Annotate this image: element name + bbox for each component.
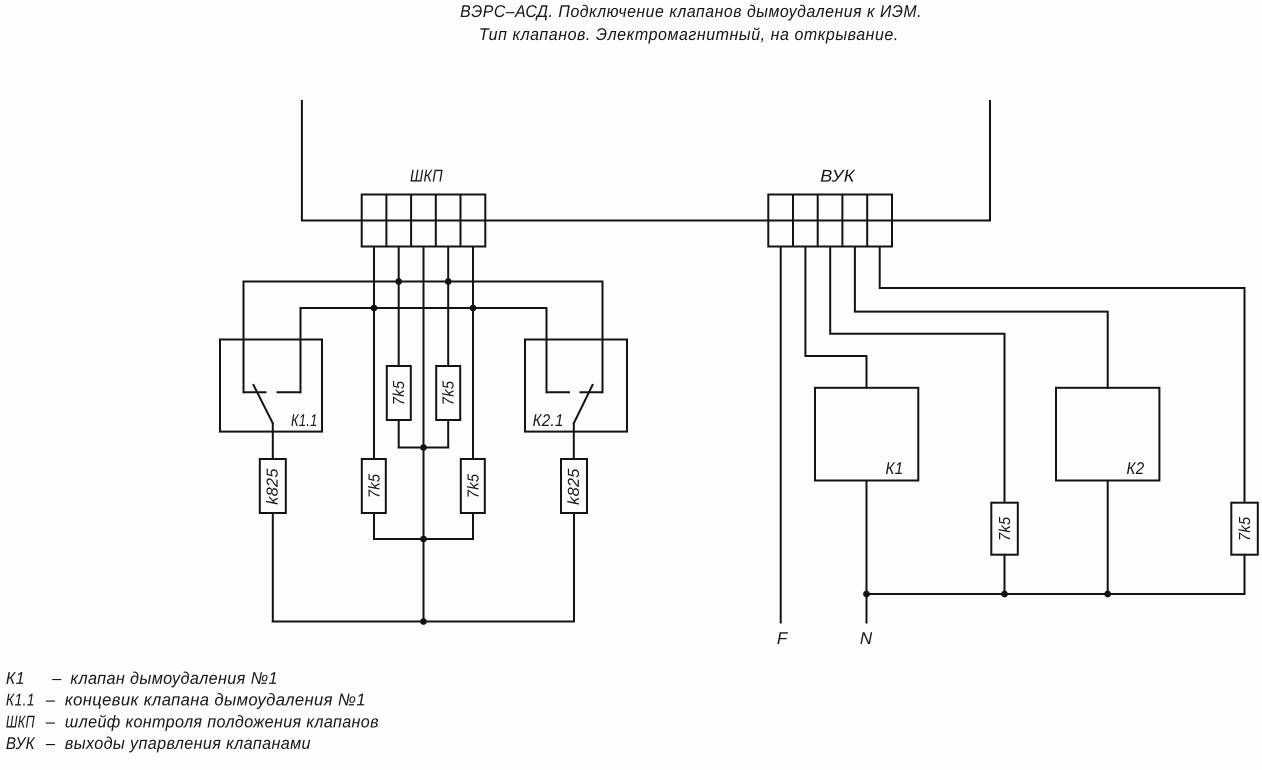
wire: K2.1 left contact drop bbox=[546, 308, 548, 392]
terminal block ШКП bbox=[362, 195, 486, 247]
svg-text:Тип клапанов. Электромагнитный: Тип клапанов. Электромагнитный, на откры… bbox=[479, 25, 899, 44]
wire: R8 bottom to bus bbox=[1244, 555, 1246, 594]
junction on pin2 bus bbox=[395, 278, 402, 285]
svg-text:ВУК: ВУК bbox=[820, 167, 855, 186]
svg-text:k825: k825 bbox=[566, 468, 583, 505]
svg-text:К2.1: К2.1 bbox=[533, 411, 564, 430]
svg-text:ШКП: ШКП bbox=[6, 712, 35, 731]
wire: K1.1 right contact drop bbox=[300, 308, 302, 392]
svg-text:клапан дымоудаления №1: клапан дымоудаления №1 bbox=[70, 669, 278, 688]
wire: top-right riser to ВУК bbox=[892, 101, 990, 221]
switch K2.1 enclosure bbox=[525, 340, 627, 432]
switch K2.1 right contact bbox=[581, 391, 603, 393]
wire: R6 bottom to bottom bus bbox=[573, 513, 575, 622]
wire: link R3-R4 bbox=[374, 538, 473, 540]
junction N at K1 bbox=[863, 591, 870, 598]
junction R3-R4 link bbox=[420, 536, 427, 543]
svg-text:–: – bbox=[45, 690, 56, 709]
wire: R5 bottom to bottom bus bbox=[272, 513, 274, 622]
switch K2.1 left contact bbox=[547, 391, 570, 393]
svg-text:7k5: 7k5 bbox=[366, 474, 383, 499]
junction on pin5 bus bbox=[470, 305, 477, 312]
svg-text:концевик клапана дымоудаления: концевик клапана дымоудаления №1 bbox=[65, 690, 366, 709]
resistor R8 7k5 bbox=[1231, 503, 1258, 555]
wire: ВУК pin4 to K2 coil bbox=[855, 247, 1108, 388]
wire: top-left riser to ШКП bbox=[302, 101, 362, 221]
switch K1.1 right contact bbox=[278, 391, 301, 393]
wire: ВУК pin1 down to F bbox=[780, 247, 782, 623]
wire: bottom bus bbox=[273, 621, 574, 623]
resistor R2 7k5 bbox=[436, 366, 460, 420]
wire: K2 bottom to bus bbox=[1107, 481, 1109, 595]
wire: right bottom bus N bbox=[867, 593, 1245, 595]
switch K1.1 left contact bbox=[244, 391, 266, 393]
svg-text:К1.1: К1.1 bbox=[291, 411, 318, 430]
svg-text:–: – bbox=[51, 669, 62, 688]
svg-text:ШКП: ШКП bbox=[410, 167, 443, 186]
wire: R2 bottom to mid node bbox=[447, 420, 449, 448]
resistor R7 7k5 bbox=[991, 503, 1018, 555]
wire: upper bus to switch commons (K1.1/K2.1 NC line) bbox=[244, 281, 603, 283]
valve K1 enclosure bbox=[815, 388, 918, 481]
resistor R6 k825 bbox=[561, 459, 587, 513]
switch K2.1 lever bbox=[574, 385, 593, 423]
svg-text:ВУК: ВУК bbox=[6, 734, 36, 753]
valve K2 enclosure bbox=[1056, 388, 1159, 481]
wire: R4 bottom drop bbox=[472, 513, 474, 539]
svg-text:ВЭРС–АСД. Подключение клапанов: ВЭРС–АСД. Подключение клапанов дымоудале… bbox=[460, 2, 922, 21]
wire: K2.1 pole to resistor R6 bbox=[573, 423, 575, 459]
wire: K1.1 pole to resistor R5 bbox=[272, 423, 274, 459]
resistor R5 k825 bbox=[260, 459, 286, 513]
wire: ШКП pin3 center wire down to bottom node bbox=[423, 247, 425, 622]
svg-text:шлейф контроля полдожения клап: шлейф контроля полдожения клапанов bbox=[65, 712, 379, 731]
wire: ШКП pin2 down to resistor R1 bbox=[398, 247, 400, 367]
svg-text:7k5: 7k5 bbox=[441, 381, 458, 406]
svg-text:7k5: 7k5 bbox=[465, 474, 482, 499]
wire: ШКП pin5 down to resistor R4 bbox=[472, 247, 474, 460]
svg-text:–: – bbox=[45, 712, 56, 731]
junction on pin4 bus bbox=[445, 278, 452, 285]
resistor R1 7k5 bbox=[387, 366, 411, 420]
resistor R3 7k5 bbox=[362, 459, 386, 513]
wire: K1 bottom to N bbox=[866, 481, 868, 623]
junction N at R7 bbox=[1001, 591, 1008, 598]
svg-text:выходы упарвления клапанами: выходы упарвления клапанами bbox=[65, 734, 311, 753]
switch K1.1 lever bbox=[254, 385, 273, 423]
wire: R1 bottom to mid node bbox=[398, 420, 400, 448]
svg-text:К1.1: К1.1 bbox=[6, 690, 35, 709]
wire: second bus line bbox=[301, 307, 547, 309]
wire: K1.1 left contact drop bbox=[243, 282, 245, 393]
wire: K2.1 right contact drop bbox=[602, 282, 604, 393]
junction R1-R2 mid bbox=[420, 444, 427, 451]
junction N at K2 bbox=[1104, 591, 1111, 598]
wire: ВУК pin5 to resistor R8 bbox=[880, 247, 1245, 503]
svg-text:К1: К1 bbox=[885, 459, 903, 478]
svg-text:К2: К2 bbox=[1126, 459, 1144, 478]
wire: ВУК pin2 to K1 coil bbox=[805, 247, 866, 388]
junction bottom bus bbox=[420, 618, 427, 625]
switch K1.1 enclosure bbox=[220, 340, 322, 432]
wire: ШКП pin4 down to resistor R2 bbox=[447, 247, 449, 367]
svg-text:N: N bbox=[860, 629, 873, 648]
svg-text:k825: k825 bbox=[265, 468, 282, 505]
svg-text:–: – bbox=[45, 734, 56, 753]
wire: mid link R1-R2 bbox=[399, 447, 449, 449]
terminal block ВУК bbox=[768, 195, 892, 247]
svg-text:К1: К1 bbox=[6, 669, 25, 688]
svg-text:7k5: 7k5 bbox=[391, 381, 408, 406]
svg-text:7k5: 7k5 bbox=[1237, 517, 1254, 542]
svg-text:7k5: 7k5 bbox=[997, 517, 1014, 542]
wire: ШКП pin1 down to resistor R3 bbox=[373, 247, 375, 460]
wire: ВУК pin3 to resistor R7 bbox=[830, 247, 1004, 503]
junction on pin1 bus bbox=[371, 305, 378, 312]
wire: ШКП to ВУК interconnect bbox=[485, 220, 768, 222]
wire: R3 bottom drop bbox=[373, 513, 375, 539]
wire: R7 bottom to bus bbox=[1004, 555, 1006, 594]
resistor R4 7k5 bbox=[461, 459, 485, 513]
svg-text:F: F bbox=[777, 629, 789, 648]
